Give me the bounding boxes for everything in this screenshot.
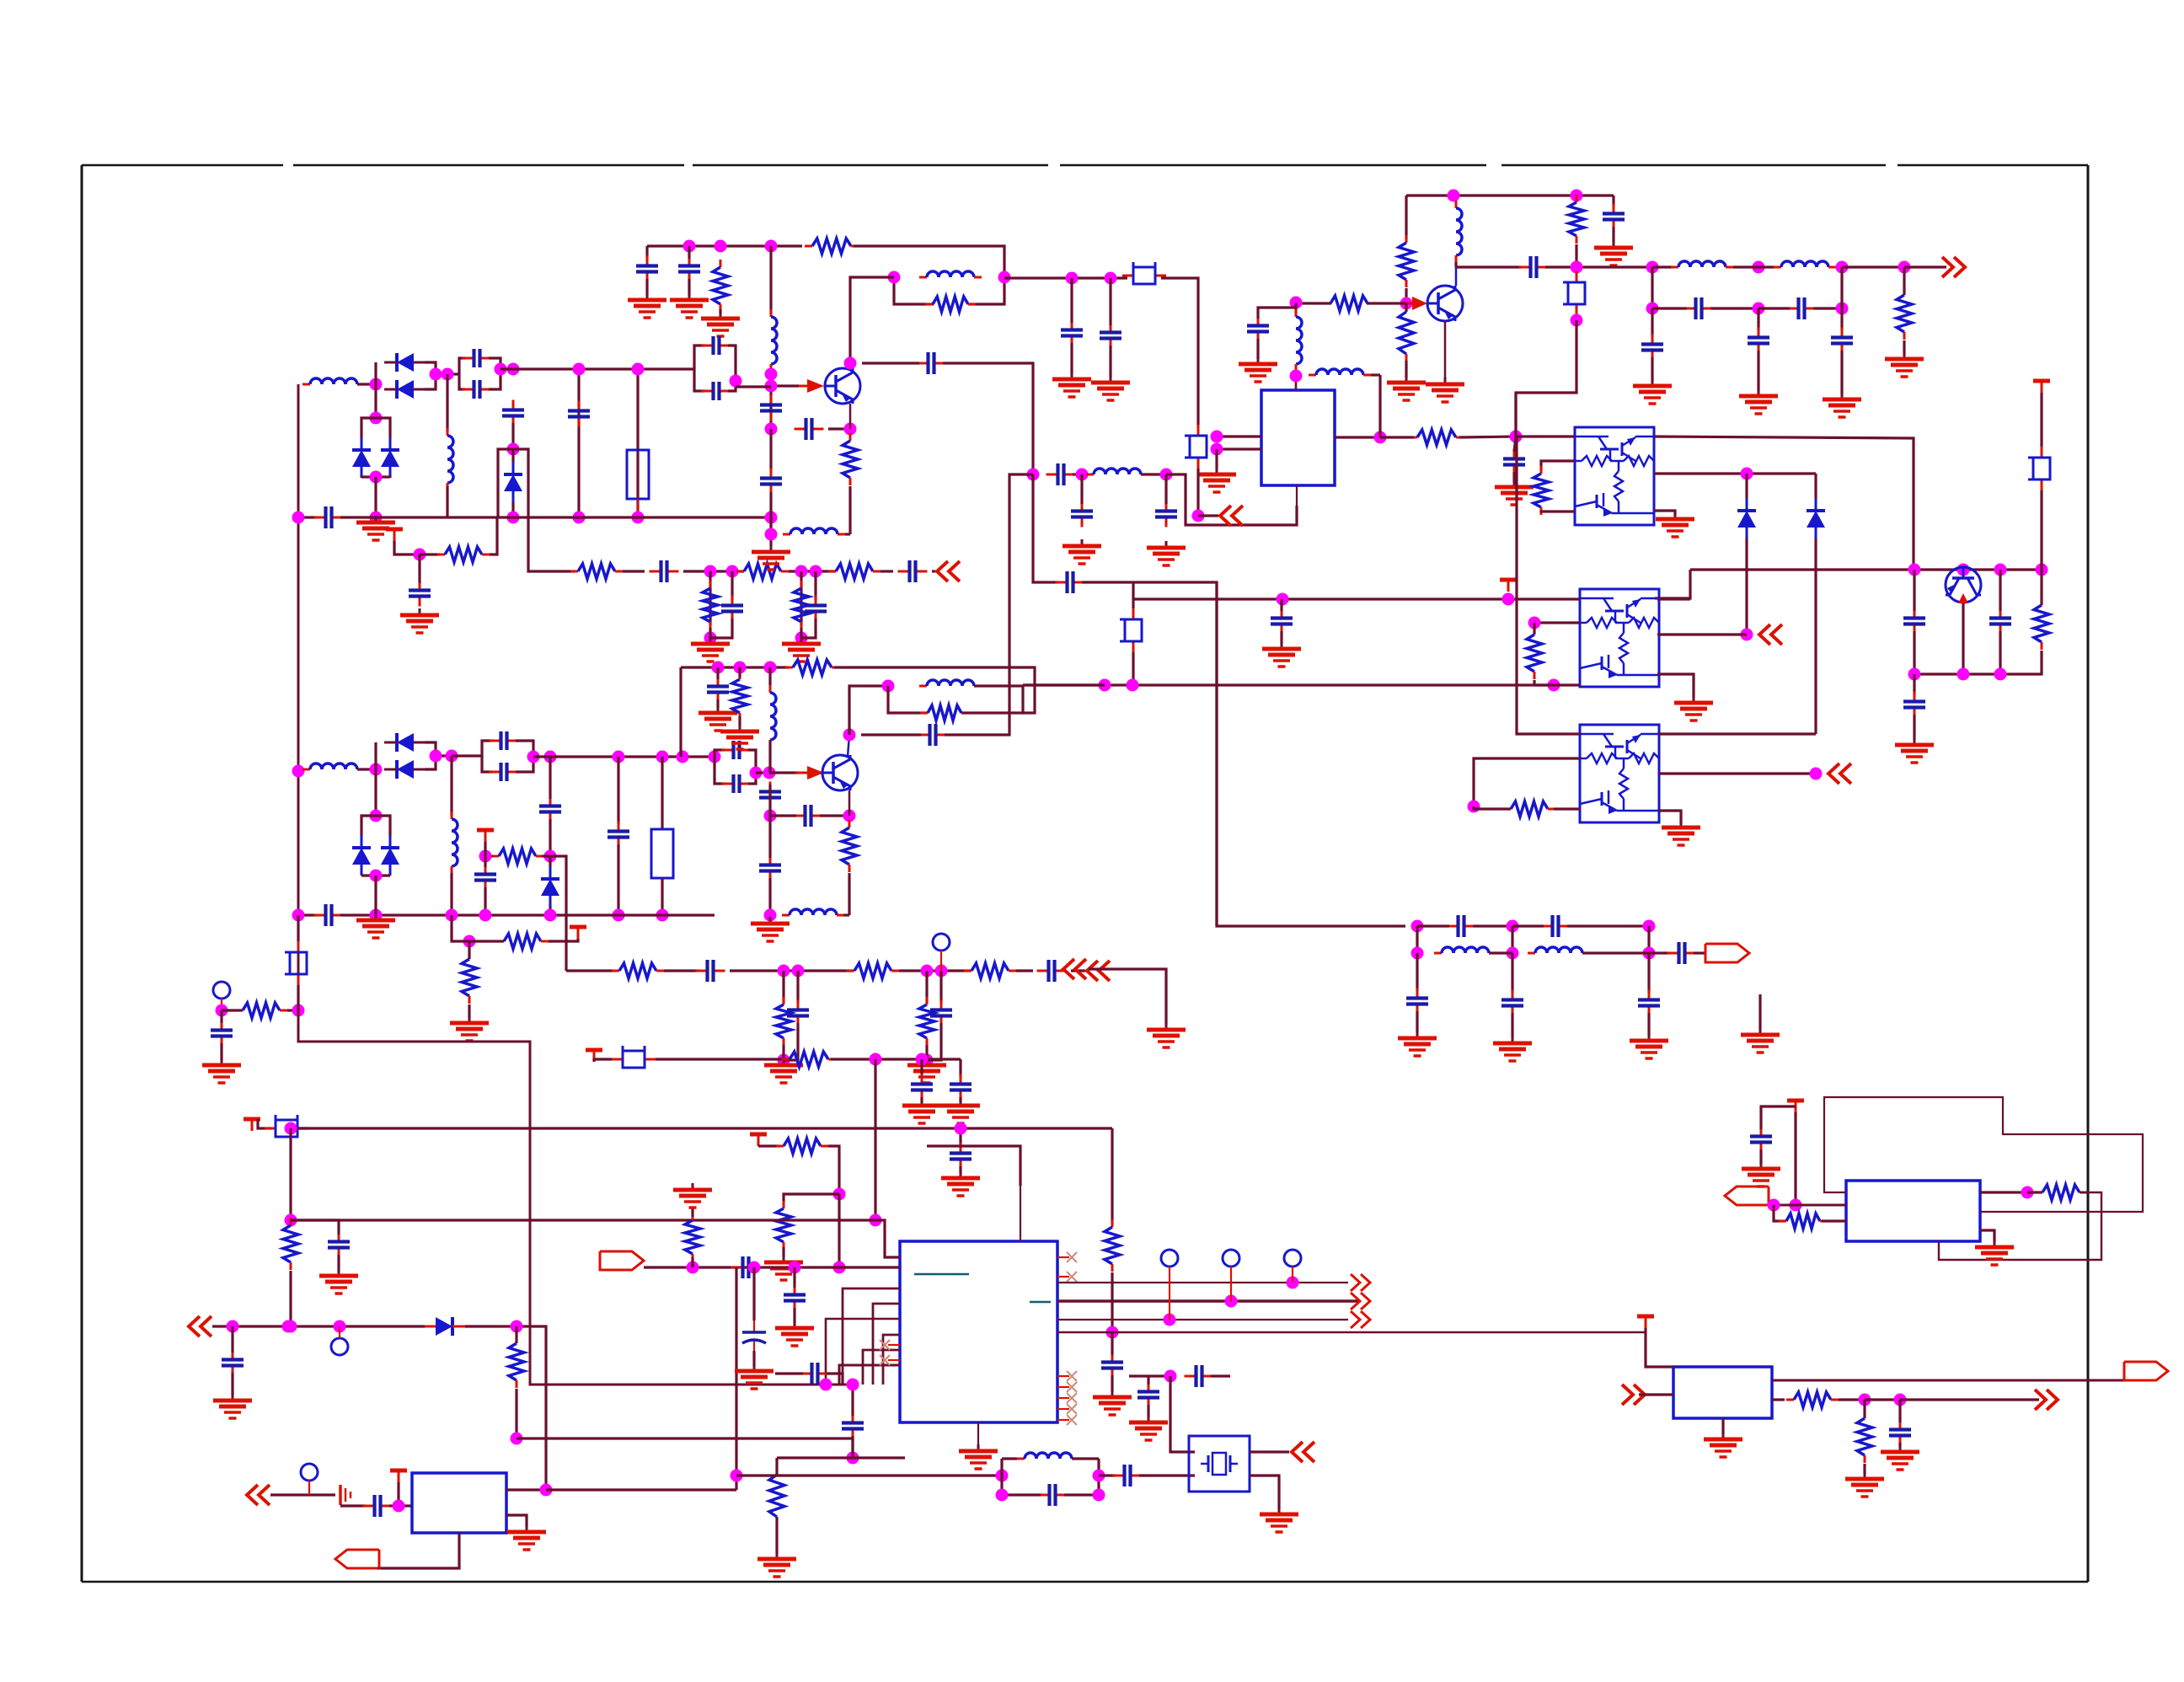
node B1b xyxy=(683,240,696,253)
wire diode loop left xyxy=(374,362,377,406)
diode D5 xyxy=(541,866,559,907)
node K20 xyxy=(820,1379,832,1391)
h row2 xyxy=(1489,951,1512,954)
c48w xyxy=(768,785,771,805)
r22 wr xyxy=(542,854,550,857)
node C5 xyxy=(1510,431,1523,443)
c76w2 xyxy=(1070,343,1073,374)
ground G32 xyxy=(1493,1037,1532,1061)
bias v2 xyxy=(1294,371,1297,376)
capacitor C40 xyxy=(1037,960,1067,982)
node F10 xyxy=(370,810,383,822)
ground G56 xyxy=(356,516,395,540)
node D16 xyxy=(1105,272,1117,285)
node A23 xyxy=(765,512,778,524)
rail corner right xyxy=(1612,196,1614,206)
r15wr xyxy=(1367,302,1406,304)
node K15 xyxy=(1164,1370,1177,1383)
inductor L10 xyxy=(1671,261,1733,267)
rail676 xyxy=(1690,568,2042,570)
U1 right pin xyxy=(1335,436,1380,438)
power T9 xyxy=(244,1119,260,1131)
test point TP1 xyxy=(933,934,950,951)
ground G35 xyxy=(1147,1023,1186,1047)
ground G46 xyxy=(735,1364,773,1389)
c36w2 xyxy=(549,819,551,856)
afw2 xyxy=(1774,1205,1785,1221)
m2 dp bot xyxy=(361,874,376,876)
wire shunt C3 xyxy=(577,369,580,517)
test point TP2 xyxy=(213,982,230,999)
node F6 xyxy=(544,850,557,863)
U6 right pin stub t1 xyxy=(1057,1276,1069,1278)
capacitor C42 xyxy=(930,1000,952,1026)
trimmer TC1 xyxy=(1563,271,1585,315)
ground G14 xyxy=(1633,379,1672,404)
c43w2 xyxy=(220,1043,222,1060)
row1633b xyxy=(1211,1374,1230,1377)
diode D4b xyxy=(384,760,425,779)
c68w xyxy=(775,1372,803,1374)
r23w2 xyxy=(549,915,566,941)
resistor R31 xyxy=(785,660,839,675)
inductor L3 xyxy=(919,271,982,277)
reg out right xyxy=(546,1488,736,1491)
capacitor C41 xyxy=(787,1000,809,1026)
wire C5 xyxy=(418,554,420,583)
node K8 xyxy=(285,1320,297,1333)
ground G39 xyxy=(941,1171,980,1196)
capacitor C10b xyxy=(678,256,700,282)
port REG xyxy=(335,1550,379,1568)
c43w xyxy=(220,1010,222,1023)
off-page bus xyxy=(1351,1274,1370,1328)
resistor R43 xyxy=(1779,1213,1828,1229)
m1 dp dn xyxy=(374,477,377,517)
c29w xyxy=(1514,437,1516,452)
capacitor C9 xyxy=(805,596,827,622)
ground G47 xyxy=(959,1444,998,1469)
node A13 xyxy=(414,549,426,561)
node E6 xyxy=(2036,564,2048,576)
c76w xyxy=(1070,278,1073,323)
resistor R33 xyxy=(920,705,969,720)
node B9 xyxy=(765,423,778,436)
U6 right pin stub 1 xyxy=(1057,1386,1069,1388)
capacitor C71 xyxy=(1137,1382,1159,1408)
node H1 xyxy=(1411,920,1424,933)
ground G16 xyxy=(1823,393,1861,417)
U6 pin w6 xyxy=(839,1365,900,1385)
U6 bus3 xyxy=(1057,1319,1348,1320)
r16 dn xyxy=(1405,361,1407,378)
capacitor C72 xyxy=(1038,1484,1068,1506)
d3b up xyxy=(1814,474,1817,498)
node A21 xyxy=(370,471,383,484)
U6 bottom pin xyxy=(977,1422,979,1446)
Q4 emitter arrow xyxy=(1958,593,1968,603)
node F4e xyxy=(709,751,721,763)
amp1 top rail xyxy=(647,244,802,247)
capacitor C50 xyxy=(759,855,781,881)
U3 out top xyxy=(1657,597,1690,600)
node K6 xyxy=(285,1122,297,1135)
c49w2 xyxy=(820,814,849,817)
leg A15 xyxy=(731,571,733,600)
m1 dp bot2 xyxy=(376,477,390,478)
m2 cap out xyxy=(516,741,533,757)
m2 cap out2 xyxy=(516,757,533,772)
node D6 xyxy=(1571,261,1583,274)
node J6 xyxy=(847,1452,859,1465)
t9w xyxy=(258,1119,271,1128)
node B10 xyxy=(844,423,857,436)
node C2 xyxy=(1076,469,1089,481)
node F7 xyxy=(479,850,492,863)
resistor R22 xyxy=(491,849,543,864)
capacitor C10 xyxy=(636,256,658,282)
capacitor C24 xyxy=(1684,297,1714,319)
r16 up xyxy=(1405,303,1407,312)
capacitor C59 xyxy=(842,1413,864,1439)
node B8 xyxy=(765,380,778,393)
ground G45 xyxy=(775,1321,814,1346)
Q3 collector xyxy=(1455,267,1458,286)
amp2 base v xyxy=(1405,288,1407,303)
off-page XTAL xyxy=(1292,1442,1314,1462)
rail to L5 xyxy=(769,517,772,534)
d5w2 xyxy=(549,907,551,915)
resistor R5 xyxy=(828,564,881,579)
U8 out2 xyxy=(1772,1398,1785,1401)
node J7 xyxy=(393,1500,405,1513)
off-page H1 xyxy=(1063,959,1086,979)
resistor R34 xyxy=(842,820,857,872)
x915 v3 xyxy=(769,429,772,470)
node B3 xyxy=(765,240,778,253)
fb row2 xyxy=(1082,582,1217,926)
row330d xyxy=(1198,514,1218,517)
x915 vertical xyxy=(769,246,772,313)
wire T1 xyxy=(394,541,420,554)
resistor R35 xyxy=(509,1336,524,1388)
ground G4a xyxy=(628,293,666,318)
capacitor C3 xyxy=(568,401,590,427)
c46w xyxy=(716,667,719,679)
resistor R19 xyxy=(2034,597,2049,650)
f9 up xyxy=(374,785,377,816)
h leg3 xyxy=(1647,953,1650,993)
no-connect XL1 xyxy=(880,1340,890,1350)
r12w2 xyxy=(1459,437,1516,437)
ground G57 xyxy=(1239,357,1277,382)
capacitor C33 xyxy=(1271,608,1293,635)
in row3 xyxy=(530,1326,546,1490)
m1 dp stem xyxy=(374,406,377,418)
node D4 xyxy=(1290,297,1303,309)
row813 xyxy=(1023,683,1554,686)
c31w xyxy=(1999,570,2001,611)
m2 down xyxy=(450,756,452,816)
node E3 xyxy=(1908,564,1921,576)
capacitor C1a xyxy=(463,349,492,367)
test point TP7 xyxy=(1284,1250,1301,1267)
d3b dn xyxy=(1814,538,1817,734)
pair loop xyxy=(894,277,934,304)
node D17 xyxy=(1192,510,1205,522)
node J4 xyxy=(511,1320,523,1333)
l14w2 xyxy=(768,740,771,773)
row330 xyxy=(1004,276,1127,279)
ground G19 xyxy=(1895,738,1934,763)
node E7 xyxy=(1957,668,1970,681)
resistor R40 xyxy=(1105,1219,1120,1272)
node F1 xyxy=(370,763,383,776)
k2 dn xyxy=(920,1059,923,1077)
resistor R45 xyxy=(1786,1392,1839,1407)
diode D3b xyxy=(1807,498,1825,538)
lc bot2 xyxy=(1064,1493,1099,1496)
node F15 xyxy=(463,935,476,948)
in row2 xyxy=(465,1325,530,1327)
f1 xyxy=(1073,473,1082,475)
inductor L18 xyxy=(1528,947,1590,953)
m2 loop rect xyxy=(550,856,566,915)
c77w xyxy=(1109,278,1111,325)
node K7 xyxy=(285,1214,297,1227)
node K2 xyxy=(916,1053,929,1066)
tp3w xyxy=(339,1326,340,1338)
of3 xyxy=(1904,265,1946,268)
c48w2 xyxy=(768,805,771,816)
k4 left xyxy=(784,1194,839,1202)
wire r8 xyxy=(719,309,721,313)
wire diode3 loop r xyxy=(513,449,528,517)
base arrow Q2 xyxy=(795,766,824,779)
no-connect XR1 xyxy=(1067,1382,1077,1392)
amp2 toprail xyxy=(681,666,789,668)
resistor R7 xyxy=(794,581,809,629)
m2 bottom rail2 xyxy=(340,913,715,916)
diode D1a xyxy=(384,353,425,372)
amp2 cl out2 xyxy=(748,773,756,784)
node F14 xyxy=(370,870,383,882)
emitter wire2 xyxy=(848,486,851,534)
node F9 xyxy=(370,909,383,922)
U5 out top xyxy=(506,1488,546,1491)
leg F19 xyxy=(939,971,942,1003)
node A4 xyxy=(495,363,507,376)
row366e xyxy=(1813,307,1842,309)
r40w xyxy=(1111,1272,1113,1289)
U6 top pin2 xyxy=(1020,1186,1021,1241)
diode D7 xyxy=(425,1317,465,1336)
off-page LO1 xyxy=(937,561,960,581)
r21w2 xyxy=(1554,807,1580,810)
U6 bus2 xyxy=(1057,1299,1358,1302)
of0 xyxy=(1652,265,1673,268)
fb872b xyxy=(945,474,1033,735)
r42w2 xyxy=(691,1207,693,1217)
node K14 xyxy=(1106,1326,1119,1339)
node A18 xyxy=(704,632,717,645)
coll out xyxy=(862,362,919,364)
inductor L11 xyxy=(1774,261,1836,267)
wire LO row xyxy=(528,517,575,571)
ground G18 xyxy=(1656,512,1694,537)
capacitor C26 xyxy=(1641,335,1663,361)
test point TP5 xyxy=(1161,1250,1178,1267)
power T8 xyxy=(750,1134,767,1146)
f5 xyxy=(1164,474,1167,504)
lc right xyxy=(1097,1459,1100,1495)
m2 loop right xyxy=(425,742,436,769)
node D3 xyxy=(1571,190,1583,202)
node D9 xyxy=(1753,261,1765,274)
ground G33 xyxy=(1630,1034,1668,1058)
no-connect XR0 xyxy=(1067,1371,1077,1381)
tp1w xyxy=(940,951,942,971)
node B4 xyxy=(888,271,901,284)
capacitor C20 xyxy=(1056,571,1085,593)
node F4f xyxy=(613,909,625,922)
wire to chev xyxy=(932,570,935,572)
l4w xyxy=(1865,1398,1900,1401)
afw xyxy=(1769,1204,1846,1207)
power T1 xyxy=(386,529,403,541)
off-page TC8 xyxy=(1220,506,1243,526)
m1 dp loop2 xyxy=(376,418,390,438)
resistor R15 xyxy=(1323,296,1375,311)
capacitor C12 xyxy=(795,418,824,440)
mixer trunk xyxy=(298,1010,853,1385)
node B11 xyxy=(765,528,778,541)
resistor R27 xyxy=(964,963,1016,978)
stub gnd xyxy=(1758,994,1761,1030)
node L5 xyxy=(1894,1394,1907,1406)
r35w2 xyxy=(515,1389,517,1438)
capacitor C49 xyxy=(794,805,823,827)
trimmer TC7 xyxy=(1122,262,1166,284)
U6 right pin stub 4 xyxy=(1057,1419,1069,1421)
leg F17 xyxy=(796,971,799,1003)
U6 top pin1 xyxy=(959,1128,961,1146)
f3 xyxy=(1166,474,1297,525)
trimmer TC6 xyxy=(265,1115,308,1137)
L7 dn xyxy=(1454,262,1457,267)
ground G3 xyxy=(782,637,821,662)
amp1 top rail vert xyxy=(645,246,648,259)
lo2 xyxy=(566,969,613,972)
amp2 rail drop xyxy=(679,667,682,757)
capacitor C23 xyxy=(1519,256,1549,278)
node A19 xyxy=(795,632,808,645)
c67w2 xyxy=(752,1351,755,1366)
node L2 xyxy=(1768,1199,1780,1212)
node K9 xyxy=(687,1261,699,1274)
diode D8a xyxy=(352,437,371,478)
tp2w xyxy=(221,999,222,1010)
rail676 left xyxy=(1655,570,1690,598)
node F17 xyxy=(792,965,805,978)
y1 out xyxy=(1250,1450,1289,1453)
ground G25 xyxy=(764,1058,803,1083)
node A16 xyxy=(795,565,808,578)
node F12 xyxy=(479,909,492,922)
node A1 xyxy=(370,378,383,391)
node H4 xyxy=(1411,947,1424,960)
ground G38 xyxy=(507,1525,546,1550)
resistor R20 xyxy=(1527,627,1542,679)
inductor L6 xyxy=(1086,469,1148,474)
node D12 xyxy=(1646,303,1659,315)
wire c10b xyxy=(645,279,648,295)
ground G28 xyxy=(699,706,737,731)
node F19 xyxy=(935,965,948,978)
U1 left pin wires2 xyxy=(1217,447,1261,450)
capacitor C60 xyxy=(363,1495,393,1517)
resistor R16 xyxy=(1399,304,1414,362)
r20w xyxy=(1533,623,1535,635)
leg D13b xyxy=(1757,351,1759,391)
node D10 xyxy=(1836,261,1849,274)
row1633 xyxy=(1129,1374,1170,1377)
node F20 xyxy=(778,1054,790,1067)
no-connect XR4 xyxy=(1067,1415,1077,1425)
pair2 loop xyxy=(888,686,928,713)
U2 out mid xyxy=(1654,472,1816,474)
j5 right xyxy=(517,1438,853,1458)
node A6 xyxy=(507,443,520,456)
U6 pin w4 xyxy=(883,1335,900,1385)
resistor R21 xyxy=(1503,801,1555,817)
ground G40 xyxy=(902,1099,941,1123)
IC U5 regulator xyxy=(412,1473,506,1533)
leg D14 xyxy=(1840,267,1843,330)
c50w xyxy=(768,816,771,858)
U2 mid res2 xyxy=(1541,511,1575,512)
node B5 xyxy=(998,271,1011,284)
row330b xyxy=(1161,278,1198,426)
transistor Q3 xyxy=(1427,286,1463,321)
l16w xyxy=(843,913,849,916)
capacitor C18 xyxy=(1071,501,1093,528)
node E10 xyxy=(1502,593,1515,606)
j6 left xyxy=(777,1456,853,1459)
t5w xyxy=(566,939,578,941)
wire R3-C6 xyxy=(623,570,645,572)
node A22 xyxy=(370,512,383,524)
ground G1 xyxy=(400,608,439,633)
lo2f xyxy=(1071,969,1085,972)
leg A14 xyxy=(709,571,711,625)
fb down xyxy=(1516,320,1576,437)
capacitor C6 xyxy=(650,560,679,582)
port CTRL xyxy=(600,1251,644,1270)
amp2 tr2 xyxy=(834,667,1035,713)
capacitor C25 xyxy=(1787,297,1817,319)
node A8 xyxy=(573,363,586,376)
node L1 xyxy=(1790,1199,1802,1212)
resistor R13 xyxy=(1399,235,1414,287)
af3 xyxy=(1639,1393,1673,1395)
node A2 xyxy=(430,368,442,381)
power T3 xyxy=(1500,580,1517,592)
U5 bottom xyxy=(379,1533,459,1568)
IC U1 xyxy=(1261,390,1335,485)
c75w2 xyxy=(1898,1443,1901,1447)
node H5 xyxy=(1507,947,1519,960)
